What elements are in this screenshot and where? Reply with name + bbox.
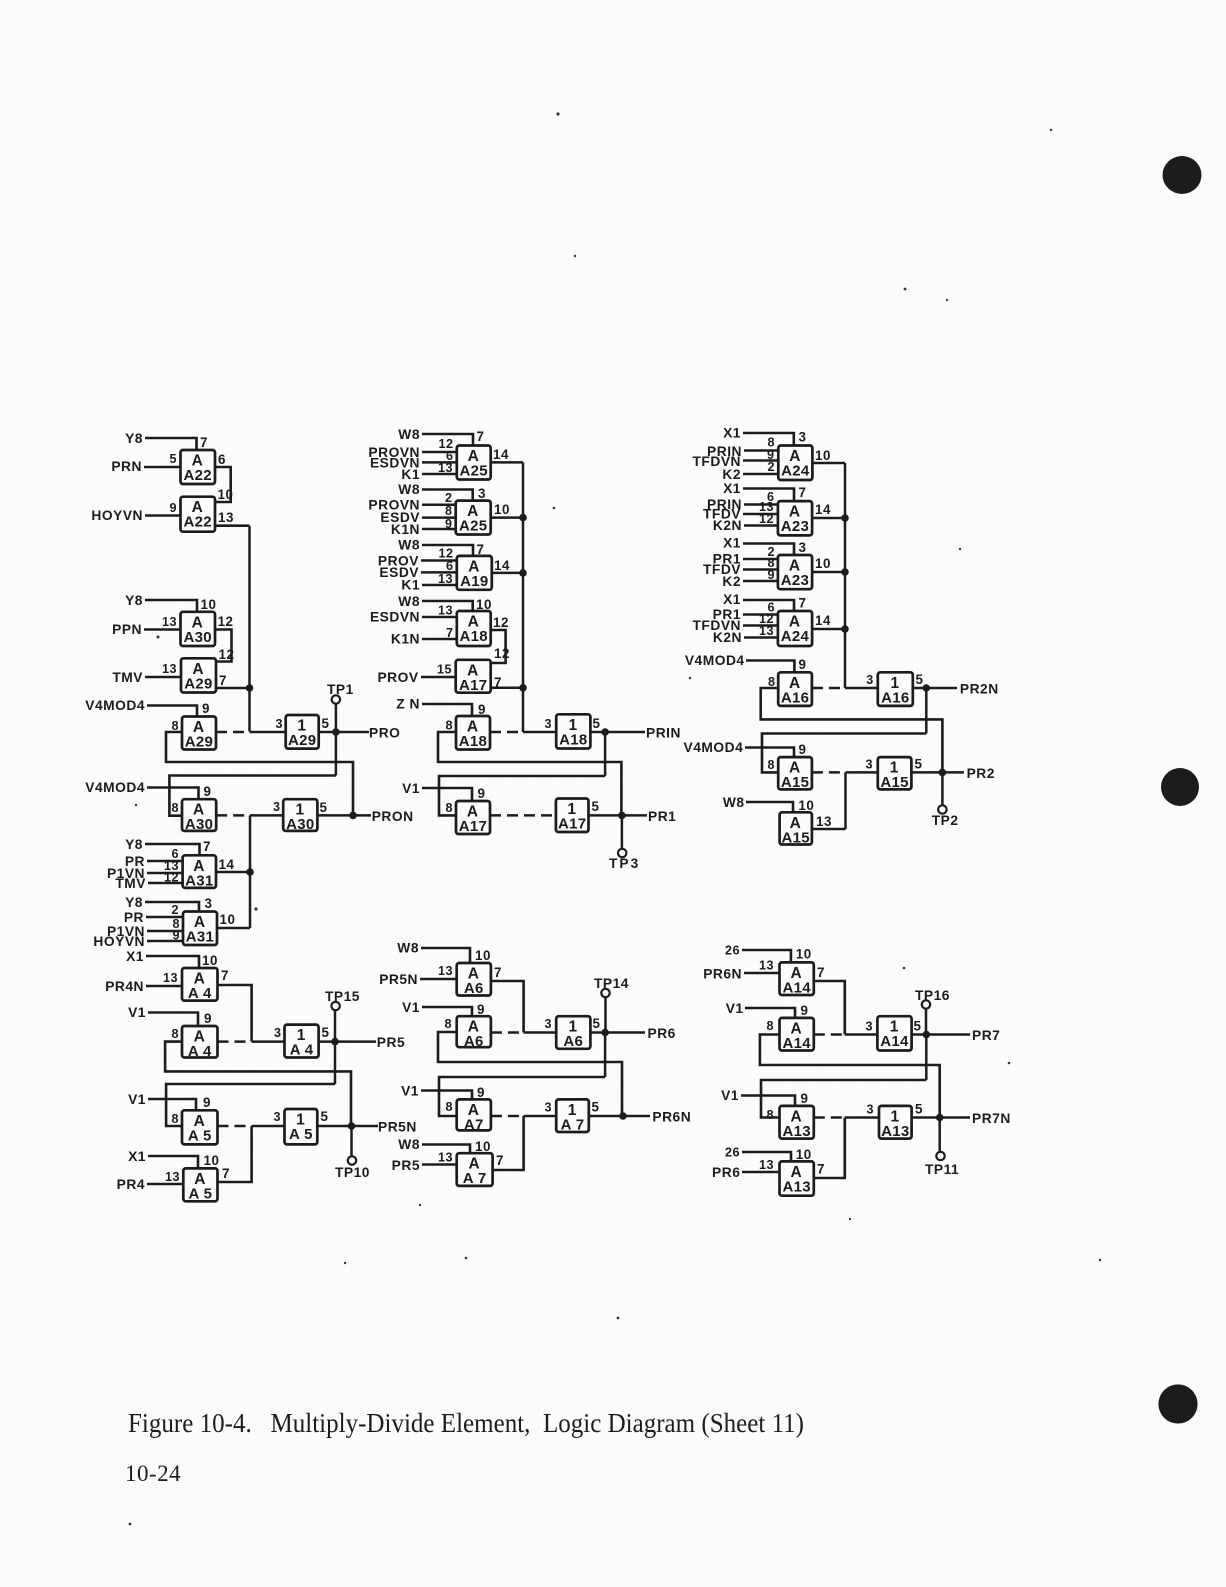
label PR7N <box>972 1111 1011 1126</box>
pin 5 <box>169 452 177 466</box>
node PRON junction <box>349 812 357 820</box>
svg-text:5: 5 <box>320 800 328 815</box>
svg-text:Y8: Y8 <box>125 895 143 910</box>
svg-text:7: 7 <box>494 965 502 980</box>
svg-text:TP14: TP14 <box>594 976 629 991</box>
svg-text:5: 5 <box>914 1019 922 1034</box>
svg-text:3: 3 <box>799 540 807 555</box>
pin 10 <box>475 948 491 963</box>
label PR <box>124 910 144 925</box>
wire to test point TP16 <box>925 1008 928 1035</box>
wire inverter A7 output to PR6N <box>589 1115 650 1118</box>
svg-text:A 5: A 5 <box>289 1126 313 1143</box>
gate A5 (latch AND) <box>182 1110 218 1144</box>
svg-text:K1N: K1N <box>391 632 420 647</box>
svg-text:3: 3 <box>273 800 281 814</box>
svg-text:PRO: PRO <box>369 726 400 741</box>
svg-text:3: 3 <box>865 1020 873 1034</box>
svg-text:K2N: K2N <box>713 518 742 533</box>
svg-text:9: 9 <box>477 1002 485 1017</box>
pin 7 <box>496 1153 504 1168</box>
svg-text:9: 9 <box>202 701 210 716</box>
gate A29 (upper) with input TMV <box>181 658 216 692</box>
node PR7 junction <box>923 1031 931 1039</box>
wire bus to inverter A29 pin 3 <box>250 731 286 734</box>
wire PR6 to pin 13 <box>742 1171 780 1174</box>
wire K1 to pin 13 <box>422 584 457 587</box>
wire TFDVN to pin 12 <box>743 624 778 627</box>
pin 8 <box>766 1019 774 1033</box>
svg-text:A 4: A 4 <box>188 1043 212 1060</box>
svg-text:8: 8 <box>766 1108 774 1122</box>
svg-text:9: 9 <box>801 1003 809 1018</box>
svg-text:13: 13 <box>759 959 774 973</box>
wire TFDV to pin 8 <box>743 568 778 571</box>
gate A17 (1st) with input PROV <box>456 660 491 694</box>
svg-text:A29: A29 <box>184 675 212 692</box>
svg-text:3: 3 <box>544 717 552 731</box>
gate A24 (2nd) with inputs X1, PR1, TFDVN, K2N <box>778 611 812 646</box>
label PR1 <box>648 809 676 824</box>
gate A23 (2nd) with inputs X1, PR1, TFDV, K2 <box>778 555 812 589</box>
pin 9 <box>767 448 775 462</box>
label PR7 <box>972 1028 1000 1043</box>
svg-text:10: 10 <box>202 953 218 968</box>
pin 8 <box>445 719 453 733</box>
wire PRO to A30 latch pin 8 <box>169 776 336 816</box>
gate A22 (upper) with inputs Y8, PRN <box>181 450 216 484</box>
wire to test point TP15 <box>334 1010 337 1042</box>
svg-text:PRN: PRN <box>111 459 142 474</box>
svg-text:9: 9 <box>799 742 807 757</box>
svg-text:TP10: TP10 <box>335 1165 370 1180</box>
svg-text:7: 7 <box>219 673 227 688</box>
wire PPN to pin 13 <box>144 628 181 631</box>
svg-text:V4MOD4: V4MOD4 <box>685 653 745 668</box>
svg-text:2: 2 <box>767 460 775 474</box>
svg-text:7: 7 <box>799 596 807 611</box>
label V1 <box>401 1084 419 1099</box>
wire bus to inverter A7 pin 3 <box>524 1115 557 1118</box>
svg-text:A17: A17 <box>459 818 487 835</box>
gate A4 (latch AND) <box>182 1026 218 1060</box>
wire to test point TP11 <box>938 1118 941 1153</box>
wire TMV to pin 12 <box>148 882 183 885</box>
pin 9 <box>204 784 212 799</box>
gate A13 (2nd) with inputs 26, PR6 <box>780 1161 814 1195</box>
svg-text:V1: V1 <box>128 1005 146 1020</box>
label V4MOD4 <box>85 698 145 713</box>
wire PRIN to A17 latch pin 8 <box>439 776 605 815</box>
label V1 <box>721 1088 739 1103</box>
label V4MOD4 <box>685 653 745 668</box>
pin 6 <box>767 490 775 504</box>
svg-text:13: 13 <box>218 510 234 525</box>
svg-text:A25: A25 <box>459 518 487 535</box>
inverter A6 <box>556 1016 590 1050</box>
inverter A4 <box>285 1025 319 1059</box>
svg-text:A6: A6 <box>563 1033 583 1050</box>
svg-text:PR7N: PR7N <box>972 1111 1011 1126</box>
label PR5N <box>378 1120 417 1135</box>
svg-text:A16: A16 <box>781 689 809 706</box>
svg-text:5: 5 <box>593 1016 601 1031</box>
pin 8 <box>445 801 453 815</box>
label K1 <box>401 467 420 482</box>
gate A16 (latch AND) <box>778 672 812 706</box>
svg-text:8: 8 <box>171 1112 179 1126</box>
pin 7 <box>817 965 825 980</box>
registration mark (top right) <box>1163 156 1202 194</box>
gate A15 (latch AND) <box>778 757 812 791</box>
label TP14 <box>594 976 629 991</box>
svg-text:14: 14 <box>219 857 235 872</box>
svg-text:9: 9 <box>172 929 180 943</box>
label TMV <box>112 670 143 685</box>
label K2 <box>722 574 741 589</box>
wire A15 (3rd) output bus vertical <box>844 772 847 829</box>
pin 3 <box>274 1026 282 1040</box>
wire inverter A30 output to PRON <box>317 814 371 817</box>
dashed wire A15 to bus <box>812 771 846 774</box>
wire PR2N feedback down <box>925 688 928 734</box>
node PR7N junction <box>936 1114 944 1122</box>
svg-text:13: 13 <box>816 814 832 829</box>
node PRIN junction <box>601 728 609 736</box>
wire HOYVN to pin 9 <box>147 940 183 943</box>
svg-text:TP2: TP2 <box>932 813 959 828</box>
wire A31 pin 10 to OR bus <box>217 927 250 930</box>
svg-text:V4MOD4: V4MOD4 <box>85 698 145 713</box>
pin 14 <box>219 857 235 872</box>
svg-text:PROV: PROV <box>377 670 418 685</box>
svg-text:14: 14 <box>815 502 831 517</box>
svg-text:5: 5 <box>592 799 600 814</box>
svg-text:3: 3 <box>478 486 486 501</box>
wire K2N to pin 13 <box>744 636 778 639</box>
wire PR7 to A13 latch pin 8 <box>761 1080 926 1118</box>
pin 9 <box>172 929 180 943</box>
pin 10 <box>201 597 217 612</box>
pin 9 <box>203 1095 211 1110</box>
pin 9 <box>445 517 453 531</box>
pin 10 <box>798 798 814 813</box>
wire PR2 to A16 latch pin 8 <box>761 688 943 772</box>
label V4MOD4 <box>85 780 145 795</box>
dashed wire A5 to bus <box>218 1125 252 1128</box>
label PR5N <box>379 972 418 987</box>
pin 10 <box>815 448 831 463</box>
svg-text:PR: PR <box>124 910 144 925</box>
svg-text:W8: W8 <box>723 795 745 810</box>
pin 8 <box>767 556 775 570</box>
svg-text:PR6N: PR6N <box>652 1110 691 1125</box>
svg-text:3: 3 <box>205 896 213 911</box>
dashed wire A14 to bus <box>814 1033 845 1036</box>
wire A7 pin 7 to latch bus <box>493 1116 524 1170</box>
junction <box>519 514 527 522</box>
inverter A14 <box>877 1016 911 1050</box>
svg-text:W8: W8 <box>398 538 420 553</box>
svg-text:7: 7 <box>203 839 211 854</box>
pin 12 <box>219 647 235 662</box>
node PR5N junction <box>348 1122 356 1130</box>
pin 10 <box>796 947 812 962</box>
wire A15 pin 13 to bus <box>812 828 846 831</box>
inverter A30 <box>283 799 317 833</box>
svg-text:Y8: Y8 <box>125 593 143 608</box>
pin 9 <box>202 701 210 716</box>
svg-text:A23: A23 <box>781 572 809 589</box>
svg-text:8: 8 <box>171 801 179 815</box>
svg-text:A7: A7 <box>464 1116 484 1133</box>
wire A23 pin 14 to OR bus <box>812 517 845 520</box>
wire P1VN to pin 13 <box>147 872 183 875</box>
svg-text:ESDVN: ESDVN <box>370 610 420 625</box>
wire to test point TP2 <box>941 772 944 806</box>
svg-text:13: 13 <box>759 1158 774 1172</box>
label PRIN <box>707 497 742 512</box>
page number 10-24 <box>125 1461 181 1486</box>
wire V1 to A13 pin 9 <box>741 1096 795 1106</box>
svg-text:13: 13 <box>162 615 177 629</box>
scan speckles <box>129 112 1102 1525</box>
label PROVN <box>368 445 420 460</box>
svg-text:10: 10 <box>204 1153 220 1168</box>
svg-text:A13: A13 <box>782 1178 810 1195</box>
label PR5 <box>392 1158 420 1173</box>
svg-text:V1: V1 <box>401 1084 419 1099</box>
net wire: left column OR bus vertical <box>248 526 251 732</box>
svg-text:X1: X1 <box>723 426 741 441</box>
label V4MOD4 <box>684 740 744 755</box>
inverter A15 <box>878 757 912 791</box>
svg-text:8: 8 <box>767 758 775 772</box>
gate A6 (1st) with inputs W8, PR5N <box>457 963 491 997</box>
label PR1 <box>713 552 741 567</box>
svg-text:PR2: PR2 <box>967 766 995 781</box>
pin 7 <box>477 542 485 557</box>
pin 9 <box>478 786 486 801</box>
gate A29 (latch AND) <box>182 717 216 751</box>
wire 26 to pin 10 <box>742 1152 791 1161</box>
svg-text:PPN: PPN <box>112 622 142 637</box>
pin 14 <box>494 558 510 573</box>
svg-text:PR6: PR6 <box>648 1026 676 1041</box>
inverter A13 <box>879 1106 912 1140</box>
label PROV <box>378 554 419 569</box>
svg-text:10: 10 <box>220 912 236 927</box>
dashed wire A7 to bus <box>491 1115 524 1118</box>
svg-text:A31: A31 <box>186 929 214 946</box>
node PR2N junction <box>923 684 931 692</box>
label V1 <box>128 1092 146 1107</box>
svg-text:7: 7 <box>222 1166 230 1181</box>
svg-text:7: 7 <box>496 1153 504 1168</box>
label TMV <box>115 876 146 891</box>
wire V1 to A14 pin 9 <box>745 1008 795 1018</box>
pin 7 <box>221 968 229 983</box>
svg-text:10: 10 <box>218 487 234 502</box>
svg-text:K1: K1 <box>401 467 420 482</box>
wire PROV to pin 12 <box>421 559 457 562</box>
svg-text:A18: A18 <box>559 731 587 748</box>
dashed wire A13 to bus <box>814 1116 845 1119</box>
wire X1 to A5 pin 10 <box>148 1156 198 1168</box>
pin 7 <box>477 429 485 444</box>
gate A22 (lower) with input HOYVN <box>181 497 216 532</box>
pin 6 <box>446 559 454 573</box>
svg-text:PR5: PR5 <box>377 1035 405 1050</box>
svg-text:TMV: TMV <box>115 876 146 891</box>
wire V4MOD4 to A15 pin 9 <box>745 748 794 758</box>
svg-text:5: 5 <box>592 1100 600 1115</box>
label K1N <box>391 522 420 537</box>
pin 5 <box>322 1025 330 1040</box>
pin 5 <box>592 1100 600 1115</box>
label PR4 <box>117 1177 145 1192</box>
inverter A17 <box>556 799 589 833</box>
test point TP16 <box>922 1000 930 1008</box>
pin 10 <box>494 502 510 517</box>
wire PR6N to pin 13 <box>744 972 780 975</box>
label TP1 <box>327 682 354 697</box>
junction A31 output <box>246 868 254 876</box>
wire PROVN to pin 12 <box>422 451 457 454</box>
svg-text:W8: W8 <box>398 427 420 442</box>
label TFDVN <box>693 618 742 633</box>
svg-text:3: 3 <box>544 1101 552 1115</box>
svg-text:A24: A24 <box>781 463 810 480</box>
wire A23 pin 10 to OR bus <box>812 571 845 574</box>
pin 13 <box>759 1158 774 1172</box>
label PR <box>125 854 145 869</box>
label PRO <box>369 726 400 741</box>
gate A6 (latch AND) <box>457 1016 491 1050</box>
wire TFDV to pin 13 <box>743 513 778 516</box>
svg-text:X1: X1 <box>723 481 741 496</box>
svg-text:13: 13 <box>438 572 453 586</box>
svg-text:9: 9 <box>799 657 807 672</box>
pin 3 <box>478 486 486 501</box>
gate A13 (latch AND) <box>780 1106 814 1140</box>
svg-text:X1: X1 <box>126 949 144 964</box>
svg-text:12: 12 <box>218 614 234 629</box>
label TP2 <box>932 813 959 828</box>
wire PR5 to A5 latch pin 8 <box>166 1084 335 1126</box>
svg-text:A22: A22 <box>184 514 212 531</box>
svg-text:A14: A14 <box>782 1035 811 1052</box>
wire W8 to pin 10 <box>746 802 793 812</box>
svg-text:K2: K2 <box>722 467 741 482</box>
pin 3 <box>866 673 874 687</box>
gate A31 (upper) with inputs Y8, PR, P1VN, TMV <box>183 855 216 889</box>
gate A25 (2nd) with inputs W8, PROVN, ESDV, K1N <box>456 501 491 535</box>
pin 3 <box>205 896 213 911</box>
wire A24 pin 10 to OR bus <box>812 462 845 465</box>
wire PRON to A29 latch pin 8 <box>166 732 353 815</box>
wire bus to inverter A4 pin 3 <box>252 1040 285 1043</box>
pin 2 <box>171 903 179 917</box>
wire W8 to pin 3 <box>422 490 473 501</box>
pin 5 <box>320 800 328 815</box>
pin 13 <box>438 1151 453 1165</box>
pin 7 <box>799 596 807 611</box>
svg-text:13: 13 <box>438 964 453 978</box>
wire A4 pin 7 to latch bus <box>218 985 252 1042</box>
pin 5 <box>915 757 923 772</box>
pin 13 <box>162 615 177 629</box>
wire inverter A15 output to PR2 <box>911 771 964 774</box>
pin 7 <box>494 965 502 980</box>
wire V1 to A17 pin 9 <box>422 788 472 801</box>
label PR6 <box>648 1026 676 1041</box>
wire bus to inverter A30 pin 3 <box>250 814 283 817</box>
label K1N <box>391 632 420 647</box>
label TP15 <box>325 989 360 1004</box>
wire inverter A4 output to PR5 <box>319 1040 376 1043</box>
label V1 <box>726 1001 744 1016</box>
label W8 <box>398 1137 420 1152</box>
label Y8 <box>125 431 143 446</box>
wire V1 to A5 pin 9 <box>148 1099 196 1110</box>
svg-text:V1: V1 <box>726 1001 744 1016</box>
gate A18 (1st) with inputs W8, ESDVN, K1N <box>457 611 491 646</box>
gate A25 (1st) with inputs W8, PROVN, ESDVN, K1 <box>457 446 491 480</box>
svg-text:A17: A17 <box>558 816 586 833</box>
dashed wire A6 to bus <box>491 1031 524 1034</box>
wire ESDV to pin 6 <box>421 571 457 574</box>
wire A14 pin 7 to latch bus <box>814 981 845 1035</box>
wire X1 to pin 3 <box>743 544 794 556</box>
svg-text:13: 13 <box>759 624 774 638</box>
svg-text:A 4: A 4 <box>290 1042 314 1059</box>
label PPN <box>112 622 142 637</box>
dashed wire A4 to bus <box>218 1040 252 1043</box>
svg-text:A15: A15 <box>782 829 810 846</box>
label HOYVN <box>93 934 145 949</box>
svg-text:PR5N: PR5N <box>378 1120 417 1135</box>
svg-text:V1: V1 <box>721 1088 739 1103</box>
wire PR5N to pin 13 <box>420 978 457 981</box>
registration mark (middle right) <box>1161 768 1199 806</box>
wire PR7N to A14 latch pin 8 <box>760 1035 940 1118</box>
gate A23 (1st) with inputs X1, PRIN, TFDV, K2N <box>778 501 812 535</box>
pin 7 <box>200 435 208 450</box>
wire Y8 to pin 3 <box>145 902 199 912</box>
svg-text:3: 3 <box>866 673 874 687</box>
label TP11 <box>925 1162 959 1177</box>
pin 8 <box>172 917 180 931</box>
svg-text:A15: A15 <box>880 774 908 791</box>
pin 10 <box>220 912 236 927</box>
wire PR4 to pin 13 <box>147 1183 183 1186</box>
pin 10 <box>815 556 831 571</box>
pin 10 <box>204 1153 220 1168</box>
svg-text:A16: A16 <box>881 689 909 706</box>
wire K2N to pin 12 <box>744 524 778 527</box>
wire bus to inverter A13 pin 3 <box>845 1116 879 1119</box>
svg-text:PRON: PRON <box>372 809 414 824</box>
wire A5 pin 7 to latch bus <box>218 1126 252 1182</box>
svg-text:3: 3 <box>275 717 283 731</box>
wire inverter A5 output to PR5N <box>317 1125 378 1128</box>
wire PR to pin 2 <box>146 916 183 919</box>
wire PR6 feedback down <box>604 1033 607 1078</box>
pin 3 <box>273 1110 281 1124</box>
inverter A7 <box>556 1099 589 1133</box>
dashed wire A30 to bus <box>216 814 250 817</box>
